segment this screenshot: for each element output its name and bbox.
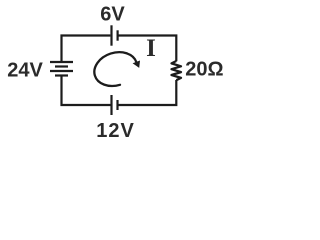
battery V1 (24V), left: long plate 2	[50, 70, 73, 72]
battery V3 (12V), bottom: long plate	[110, 95, 112, 115]
current loop arrow (clockwise) arc	[94, 52, 136, 86]
svg-text:6V: 6V	[100, 3, 125, 25]
svg-text:20Ω: 20Ω	[185, 58, 223, 80]
svg-text:12V: 12V	[96, 120, 135, 142]
wire: top-left segment with corner down to 24V battery	[62, 36, 111, 63]
battery V1 (24V), left: long plate 1	[50, 61, 73, 63]
wire: right-lower segment with corner to bottom battery	[118, 80, 176, 105]
battery V2 (6V), top: short plate	[116, 30, 118, 40]
battery V1 (24V), left: short plate 1	[55, 65, 68, 67]
wire: left-lower segment with corner to bottom battery	[62, 76, 111, 106]
resistor R1 (20 ohm), right side zigzag	[172, 61, 182, 80]
battery V1 (24V), left: short plate 2	[55, 74, 68, 76]
svg-text:I: I	[146, 35, 156, 62]
svg-text:24V: 24V	[7, 59, 43, 81]
battery V2 (6V), top: long plate	[110, 25, 112, 45]
battery V3 (12V), bottom: short plate	[116, 100, 118, 110]
wire: top-right segment with corner down to resistor	[118, 36, 176, 62]
current loop arrowhead	[133, 61, 140, 68]
